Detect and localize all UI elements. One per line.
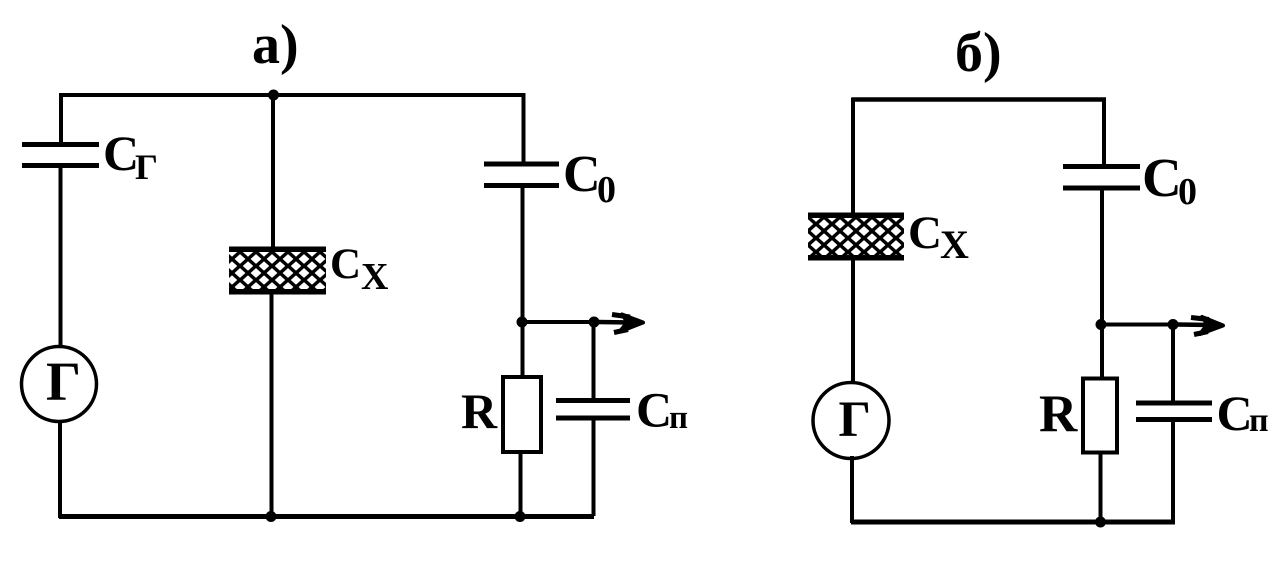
wire right branch middle (b) — [1100, 190, 1104, 379]
capacitor Cn top plate (a) — [556, 398, 630, 403]
generator Г circle (b) — [813, 383, 889, 459]
capacitor Cг bottom plate — [22, 163, 99, 168]
generator Г circle (a) — [22, 347, 97, 422]
svg-text:а): а) — [252, 14, 299, 76]
wire top rail (a) — [59, 93, 525, 97]
node output tap (a) — [589, 317, 600, 328]
capacitor C0 top plate (a) — [484, 162, 559, 167]
capacitor C0 bottom plate (b) — [1063, 186, 1140, 191]
svg-text:Г: Г — [839, 392, 871, 448]
svg-text:С: С — [330, 241, 361, 288]
capacitor Cг top plate — [22, 142, 99, 147]
wire right branch middle (a) — [521, 187, 525, 377]
capacitor Cx sample box (a) — [229, 247, 326, 295]
wire resistor to rail (b) — [1099, 452, 1103, 522]
wire Cn branch upper (b) — [1171, 325, 1175, 405]
svg-text:п: п — [669, 400, 688, 436]
wire Cn branch upper (a) — [592, 322, 596, 401]
node top junction Cx branch (a) — [268, 90, 279, 101]
svg-text:п: п — [1249, 402, 1269, 439]
svg-text:Г: Г — [46, 351, 81, 412]
svg-text:0: 0 — [1178, 171, 1197, 213]
capacitor C0 top plate (b) — [1063, 164, 1140, 169]
resistor R (b) — [1083, 379, 1117, 453]
wire Cn branch lower (a) — [592, 418, 596, 516]
wire left branch middle (a) — [59, 166, 63, 348]
svg-text:С: С — [636, 382, 672, 438]
node output junction (b) — [1096, 319, 1107, 330]
wire left branch upper (a) — [59, 93, 63, 144]
svg-text:С: С — [103, 125, 139, 181]
wire output horizontal (b) — [1102, 323, 1177, 327]
svg-text:Х: Х — [940, 222, 969, 267]
wire right branch upper (b) — [1102, 98, 1106, 166]
node bottom R branch (a) — [515, 511, 526, 522]
svg-text:С: С — [1142, 147, 1182, 208]
wire bottom rail (b) — [851, 520, 1175, 525]
node bottom Cx branch (a) — [266, 511, 277, 522]
wire top rail (b) — [852, 97, 1106, 102]
capacitor C0 bottom plate (a) — [484, 183, 559, 188]
wire resistor to rail (a) — [519, 452, 523, 516]
output arrow (b) — [1177, 317, 1223, 335]
svg-text:С: С — [563, 146, 601, 203]
wire Cx branch lower (a) — [270, 293, 274, 516]
capacitor Cn bottom plate (b) — [1136, 417, 1212, 422]
svg-text:0: 0 — [597, 169, 616, 211]
svg-text:б): б) — [955, 22, 1002, 84]
resistor R (a) — [503, 377, 541, 452]
svg-text:С: С — [908, 207, 942, 259]
wire output horizontal (a) — [522, 320, 598, 324]
capacitor Cn bottom plate (a) — [556, 416, 630, 421]
node output tap (b) — [1168, 319, 1179, 330]
wire left branch upper (b) — [851, 98, 855, 216]
svg-text:R: R — [461, 383, 498, 439]
node output junction (a) — [517, 317, 528, 328]
wire left branch lower (b) — [850, 456, 854, 523]
svg-text:R: R — [1039, 385, 1078, 443]
svg-text:Х: Х — [361, 256, 388, 298]
wire left branch lower (a) — [58, 421, 62, 518]
wire Cn branch lower (b) — [1171, 419, 1175, 523]
capacitor Cn top plate (b) — [1136, 401, 1212, 406]
capacitor Cx sample box (b) — [808, 213, 904, 261]
wire bottom rail (a) — [59, 514, 594, 519]
wire right branch upper (a) — [522, 93, 526, 162]
wire Cx branch upper (a) — [271, 95, 275, 249]
output arrow (a) — [598, 315, 643, 333]
svg-text:Г: Г — [135, 147, 158, 187]
node bottom R branch (b) — [1095, 517, 1106, 528]
svg-text:С: С — [1217, 385, 1253, 441]
wire left branch middle (b) — [851, 259, 855, 385]
